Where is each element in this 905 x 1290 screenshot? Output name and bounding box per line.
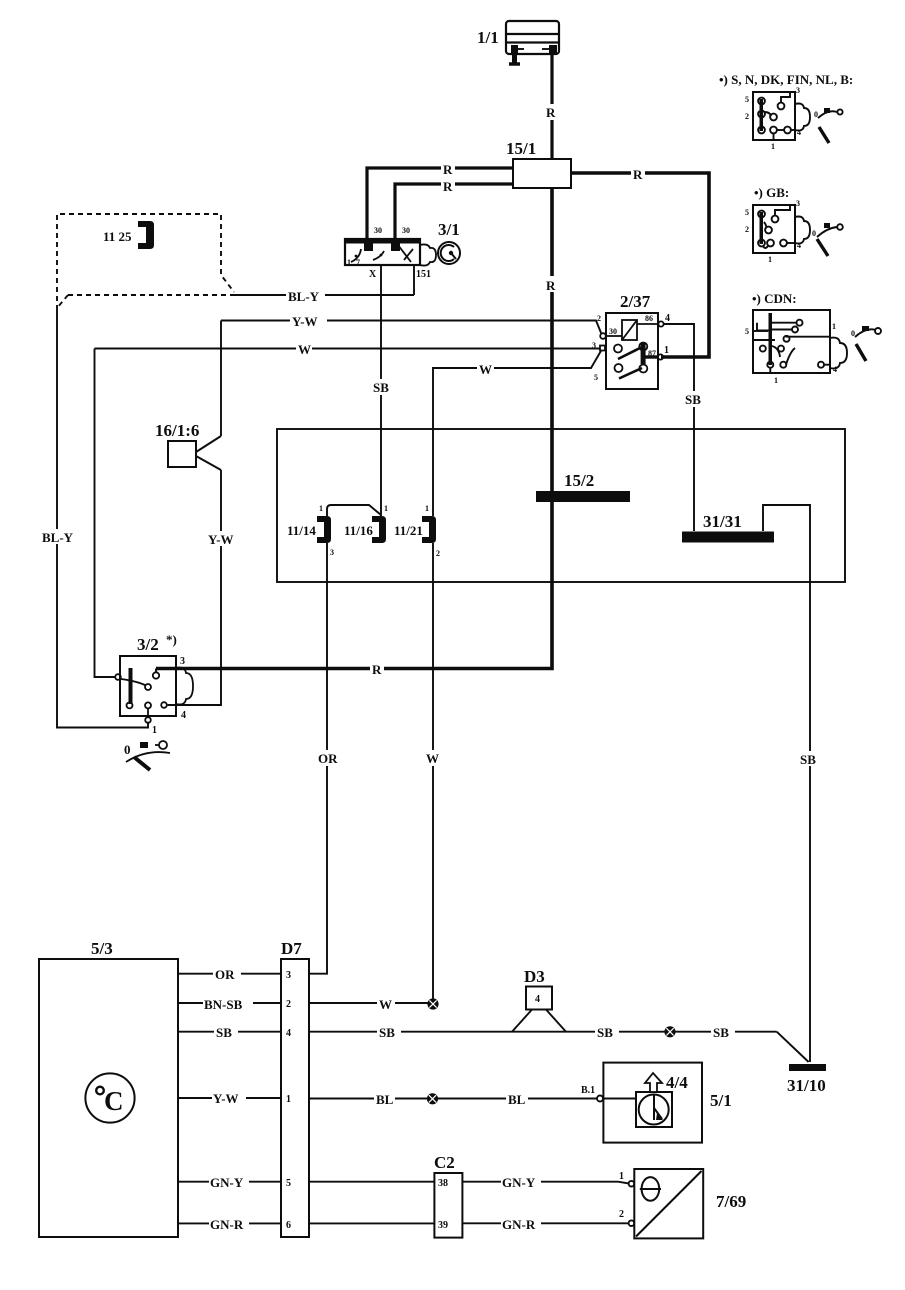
value label BL — [506, 1091, 528, 1107]
svg-text:2/37: 2/37 — [620, 292, 651, 311]
ground below battery negative terminal — [509, 54, 520, 64]
wire BL D7 pin 1 to clock B.1 — [309, 1098, 597, 1100]
svg-text:3: 3 — [330, 548, 334, 557]
svg-text:3: 3 — [180, 656, 185, 667]
connector area 11 25 dashed outline — [57, 214, 234, 310]
svg-text:30: 30 — [609, 327, 617, 336]
value label R — [441, 178, 455, 194]
svg-text:Y-W: Y-W — [213, 1091, 239, 1106]
svg-text:•) S, N, DK, FIN, NL, B:: •) S, N, DK, FIN, NL, B: — [719, 72, 853, 87]
inset 2 connector bump — [795, 217, 810, 244]
svg-text:R: R — [546, 105, 556, 120]
svg-text:OR: OR — [318, 751, 338, 766]
svg-text:2: 2 — [436, 549, 440, 558]
svg-text:0: 0 — [124, 742, 131, 757]
svg-text:OR: OR — [215, 967, 235, 982]
wire W branch from relay pin 3 down to instrument junction — [433, 350, 602, 516]
wire BN-SB 5/3 to D7 pin 2 — [178, 1002, 281, 1004]
svg-text:X: X — [369, 269, 377, 280]
connector C2 — [434, 1173, 462, 1238]
svg-text:1: 1 — [664, 345, 669, 356]
svg-text:BL: BL — [376, 1092, 394, 1107]
svg-text:W: W — [298, 342, 311, 357]
splice junction SB — [664, 1026, 675, 1037]
ignition switch 3/1 — [345, 239, 420, 265]
svg-text:SB: SB — [216, 1025, 232, 1040]
wire BL-Y to pin 15I — [234, 294, 414, 296]
svg-text:R: R — [633, 167, 643, 182]
svg-text:5/3: 5/3 — [91, 939, 113, 958]
inset 2 key lever — [817, 223, 843, 256]
switch 3/2 lever — [134, 757, 150, 770]
svg-text:W: W — [379, 997, 392, 1012]
svg-text:4: 4 — [665, 313, 670, 324]
svg-text:0: 0 — [814, 110, 818, 119]
svg-text:0: 0 — [851, 329, 855, 338]
svg-text:7/69: 7/69 — [716, 1192, 746, 1211]
fuse bar 15/2 — [536, 491, 630, 502]
svg-text:3: 3 — [796, 199, 800, 208]
svg-text:4: 4 — [181, 710, 186, 721]
inset connector S N DK FIN NL B — [753, 92, 795, 140]
svg-text:1: 1 — [774, 376, 778, 385]
svg-text:SB: SB — [713, 1025, 729, 1040]
value label GN-R — [501, 1216, 541, 1232]
wire SB relay pin 4 to ground bar 31/31 — [664, 324, 694, 531]
fuse box 15/1 — [513, 159, 571, 188]
svg-text:3: 3 — [286, 970, 291, 981]
value label R — [441, 161, 455, 177]
inset connector GB — [753, 205, 795, 253]
svg-text:11/21: 11/21 — [394, 523, 423, 538]
svg-text:3: 3 — [592, 341, 596, 350]
value label W — [477, 361, 494, 377]
connector 11/21 — [422, 516, 436, 543]
svg-text:5: 5 — [286, 1178, 291, 1189]
value label OR — [213, 966, 241, 982]
wire switch 3/2 pin 1 down to BL-Y — [141, 722, 148, 728]
inset 1 connector bump — [795, 104, 810, 131]
svg-text:2: 2 — [745, 112, 749, 121]
svg-text:D7: D7 — [281, 939, 302, 958]
svg-text:Y-W: Y-W — [208, 532, 234, 547]
connector 11/14 — [317, 516, 331, 543]
wire B.1 into clock — [603, 1098, 635, 1100]
svg-text:B.1: B.1 — [581, 1085, 595, 1096]
wire switch 3/2 pin 4 to Y-W — [168, 704, 221, 706]
svg-text:1: 1 — [286, 1094, 291, 1105]
svg-text:30: 30 — [402, 226, 410, 235]
indicator lamp 7/69 — [634, 1169, 703, 1238]
svg-text:3/1: 3/1 — [438, 220, 460, 239]
svg-text:R: R — [443, 162, 453, 177]
value label BN-SB — [203, 996, 253, 1012]
svg-text:1: 1 — [832, 322, 836, 331]
svg-text:1: 1 — [768, 255, 772, 264]
svg-text:GN-R: GN-R — [210, 1217, 244, 1232]
svg-text:R: R — [443, 179, 453, 194]
value label BL-Y — [286, 288, 325, 304]
wire SB ground bar 31/31 to ground 31/10 — [763, 505, 810, 1062]
svg-text:4: 4 — [286, 1028, 291, 1039]
svg-text:31/31: 31/31 — [703, 512, 742, 531]
svg-text:16/1:6: 16/1:6 — [155, 421, 199, 440]
svg-text:1: 1 — [319, 504, 323, 513]
inset 1 key lever — [818, 108, 843, 143]
relay 2/37 — [600, 313, 664, 389]
wire link connector 11/14 to 11/16 — [327, 505, 381, 516]
value label R — [545, 276, 558, 293]
svg-text:BN-SB: BN-SB — [204, 997, 243, 1012]
wire SB ignition switch pin X to connector 11/16 — [380, 265, 382, 516]
wire Y-W vertical to connector 16/1:6 — [220, 321, 222, 437]
value label GN-Y — [209, 1174, 249, 1190]
svg-text:GN-R: GN-R — [502, 1217, 536, 1232]
svg-text:GN-Y: GN-Y — [210, 1175, 244, 1190]
svg-text:7: 7 — [356, 258, 360, 267]
svg-text:15/2: 15/2 — [564, 471, 594, 490]
connector bracket 11 25 — [138, 221, 154, 249]
svg-text:11 25: 11 25 — [103, 229, 132, 244]
svg-text:4: 4 — [833, 365, 837, 374]
svg-text:1: 1 — [152, 725, 157, 736]
inset connector CDN — [753, 310, 830, 373]
svg-text:BL-Y: BL-Y — [288, 289, 320, 304]
wire GN-R C2 to lamp 7/69 pin 2 — [462, 1222, 628, 1224]
frame box around connectors — [277, 429, 845, 582]
svg-text:1: 1 — [425, 504, 429, 513]
svg-text:1: 1 — [347, 258, 351, 267]
svg-text:C2: C2 — [434, 1153, 455, 1172]
inset 3 connector bump — [830, 338, 847, 369]
svg-text:5: 5 — [745, 327, 749, 336]
value label W — [377, 996, 395, 1012]
value label Y-W — [290, 313, 327, 329]
switch 3/2 connector bump — [176, 668, 193, 705]
wire R fuse 15/1 to relay 2/37 pin 1 — [571, 173, 709, 357]
svg-text:GN-Y: GN-Y — [502, 1175, 536, 1190]
svg-text:5: 5 — [745, 208, 749, 217]
arrow above clock — [645, 1073, 662, 1092]
svg-text:2: 2 — [286, 999, 291, 1010]
value label GN-R — [209, 1216, 249, 1232]
svg-text:SB: SB — [379, 1025, 395, 1040]
value label R — [631, 166, 645, 182]
svg-text:4/4: 4/4 — [666, 1073, 688, 1092]
connector 11/16 — [372, 516, 386, 543]
splice junction W — [427, 998, 438, 1009]
wire R fuse 15/1 down to switch 3/2 pin 3 — [156, 188, 552, 669]
svg-text:3: 3 — [796, 86, 800, 95]
wire GN-Y 5/3 to D7 pin 5 — [178, 1181, 281, 1183]
svg-text:5: 5 — [745, 95, 749, 104]
svg-text:87: 87 — [648, 349, 656, 358]
svg-text:2: 2 — [597, 314, 601, 323]
connector D3 — [526, 987, 552, 1010]
wire SB slant into ground 31/10 — [777, 1032, 809, 1062]
value label OR — [316, 750, 341, 766]
value label BL — [374, 1091, 395, 1107]
connector 16/1:6 — [168, 436, 221, 470]
wire Y-W 5/3 to D7 pin 1 — [178, 1097, 281, 1099]
svg-text:38: 38 — [438, 1178, 448, 1189]
svg-text:C: C — [104, 1086, 124, 1116]
svg-text:•) CDN:: •) CDN: — [752, 291, 797, 306]
svg-text:6: 6 — [286, 1220, 291, 1231]
ground 31/10 — [789, 1064, 826, 1071]
svg-text:11/14: 11/14 — [287, 523, 316, 538]
pin B.1 — [597, 1096, 603, 1102]
lamp pin 1 — [629, 1181, 635, 1187]
value label BL-Y — [41, 529, 74, 545]
svg-text:3/2: 3/2 — [137, 635, 159, 654]
wire R fuse 15/1 to ignition switch pin 30 left — [367, 168, 513, 240]
svg-text:5/1: 5/1 — [710, 1091, 732, 1110]
wire BL-Y left vertical to switch 3/2 pin 1 — [57, 310, 141, 728]
value label W — [424, 750, 441, 766]
value label SB — [799, 751, 822, 767]
svg-text:86: 86 — [645, 314, 653, 323]
svg-text:SB: SB — [373, 380, 389, 395]
svg-text:1: 1 — [619, 1171, 624, 1182]
value label Y-W — [207, 531, 238, 547]
wire GN-Y C2 to lamp 7/69 pin 1 — [462, 1182, 628, 1184]
inset 3 key lever — [855, 326, 881, 361]
svg-text:39: 39 — [438, 1220, 448, 1231]
value label R — [370, 661, 384, 677]
value label SB — [684, 391, 705, 407]
connector D7 — [281, 959, 309, 1237]
clock module 5/1 — [603, 1063, 702, 1143]
value label Y-W — [212, 1090, 246, 1106]
svg-text:1/1: 1/1 — [477, 28, 499, 47]
svg-text:2: 2 — [619, 1209, 624, 1220]
battery 1/1 — [506, 21, 559, 55]
svg-text:Y-W: Y-W — [292, 314, 318, 329]
svg-text:SB: SB — [800, 752, 816, 767]
value label SB — [711, 1024, 735, 1040]
svg-text:W: W — [426, 751, 439, 766]
svg-text:•) GB:: •) GB: — [754, 185, 789, 200]
svg-text:5: 5 — [594, 373, 598, 382]
ignition key symbol 3/1 — [438, 242, 460, 264]
wire W connector 11/21 to junction — [432, 543, 434, 999]
svg-text:2: 2 — [745, 225, 749, 234]
svg-text:SB: SB — [685, 392, 701, 407]
svg-text:4: 4 — [535, 994, 540, 1005]
switch 3/2 — [115, 656, 176, 723]
temperature sender 5/3 — [39, 959, 178, 1237]
splice junction BL — [427, 1093, 438, 1104]
wire W D7 pin 2 to junction — [309, 1002, 428, 1004]
clock 4/4 — [636, 1092, 672, 1127]
wire GN-R D7 pin 6 to C2 pin 39 — [309, 1222, 434, 1224]
svg-text:SB: SB — [597, 1025, 613, 1040]
value label SB — [372, 379, 393, 395]
value label SB — [595, 1024, 619, 1040]
wire SB D7 pin 4 to ground 31/10 — [309, 1031, 777, 1033]
svg-text:BL: BL — [508, 1092, 526, 1107]
svg-text:W: W — [479, 362, 492, 377]
svg-text:151: 151 — [416, 269, 431, 280]
value label W — [296, 341, 312, 357]
wire Y-W vertical to switch 3/2 pin 4 — [168, 470, 221, 705]
svg-text:R: R — [546, 278, 556, 293]
wire GN-Y D7 pin 5 to C2 pin 38 — [309, 1181, 434, 1183]
svg-text:*): *) — [166, 632, 177, 647]
wire ignition switch pin 15I down — [413, 265, 415, 295]
svg-text:15/1: 15/1 — [506, 139, 536, 158]
wire R fuse 15/1 to ignition switch pin 30 right — [395, 184, 513, 240]
wire W left vertical to switch 3/2 — [95, 349, 117, 678]
value label SB — [214, 1024, 238, 1040]
wire W horizontal run to relay 2/37 pin 3 — [95, 348, 601, 350]
wire SB 5/3 to D7 pin 4 — [178, 1031, 281, 1033]
svg-text:0: 0 — [812, 229, 816, 238]
value label GN-Y — [501, 1174, 541, 1190]
svg-text:31/10: 31/10 — [787, 1076, 826, 1095]
value label R — [545, 104, 558, 120]
svg-text:11/16: 11/16 — [344, 523, 373, 538]
D3 tap legs — [512, 1010, 566, 1032]
svg-text:1: 1 — [771, 142, 775, 151]
wire OR 5/3 to D7 pin 3 — [178, 973, 281, 975]
wire GN-R 5/3 to D7 pin 6 — [178, 1222, 281, 1224]
svg-text:D3: D3 — [524, 967, 545, 986]
lamp pin 2 — [629, 1220, 635, 1226]
svg-text:30: 30 — [374, 226, 382, 235]
svg-text:R: R — [372, 662, 382, 677]
wire R battery positive to fuse 15/1 — [550, 55, 553, 159]
svg-text:1: 1 — [384, 504, 388, 513]
ground bar 31/31 — [682, 532, 774, 543]
value label SB after D7 pin 4 — [377, 1025, 401, 1040]
wire OR connector 11/14 to D7 pin 3 — [309, 543, 327, 974]
switch 3/2 lever arc — [126, 752, 170, 762]
ignition key connector bump — [420, 244, 436, 265]
wire Y-W relay 2/37 pin 2 horizontal run — [221, 321, 602, 335]
svg-text:BL-Y: BL-Y — [42, 530, 74, 545]
